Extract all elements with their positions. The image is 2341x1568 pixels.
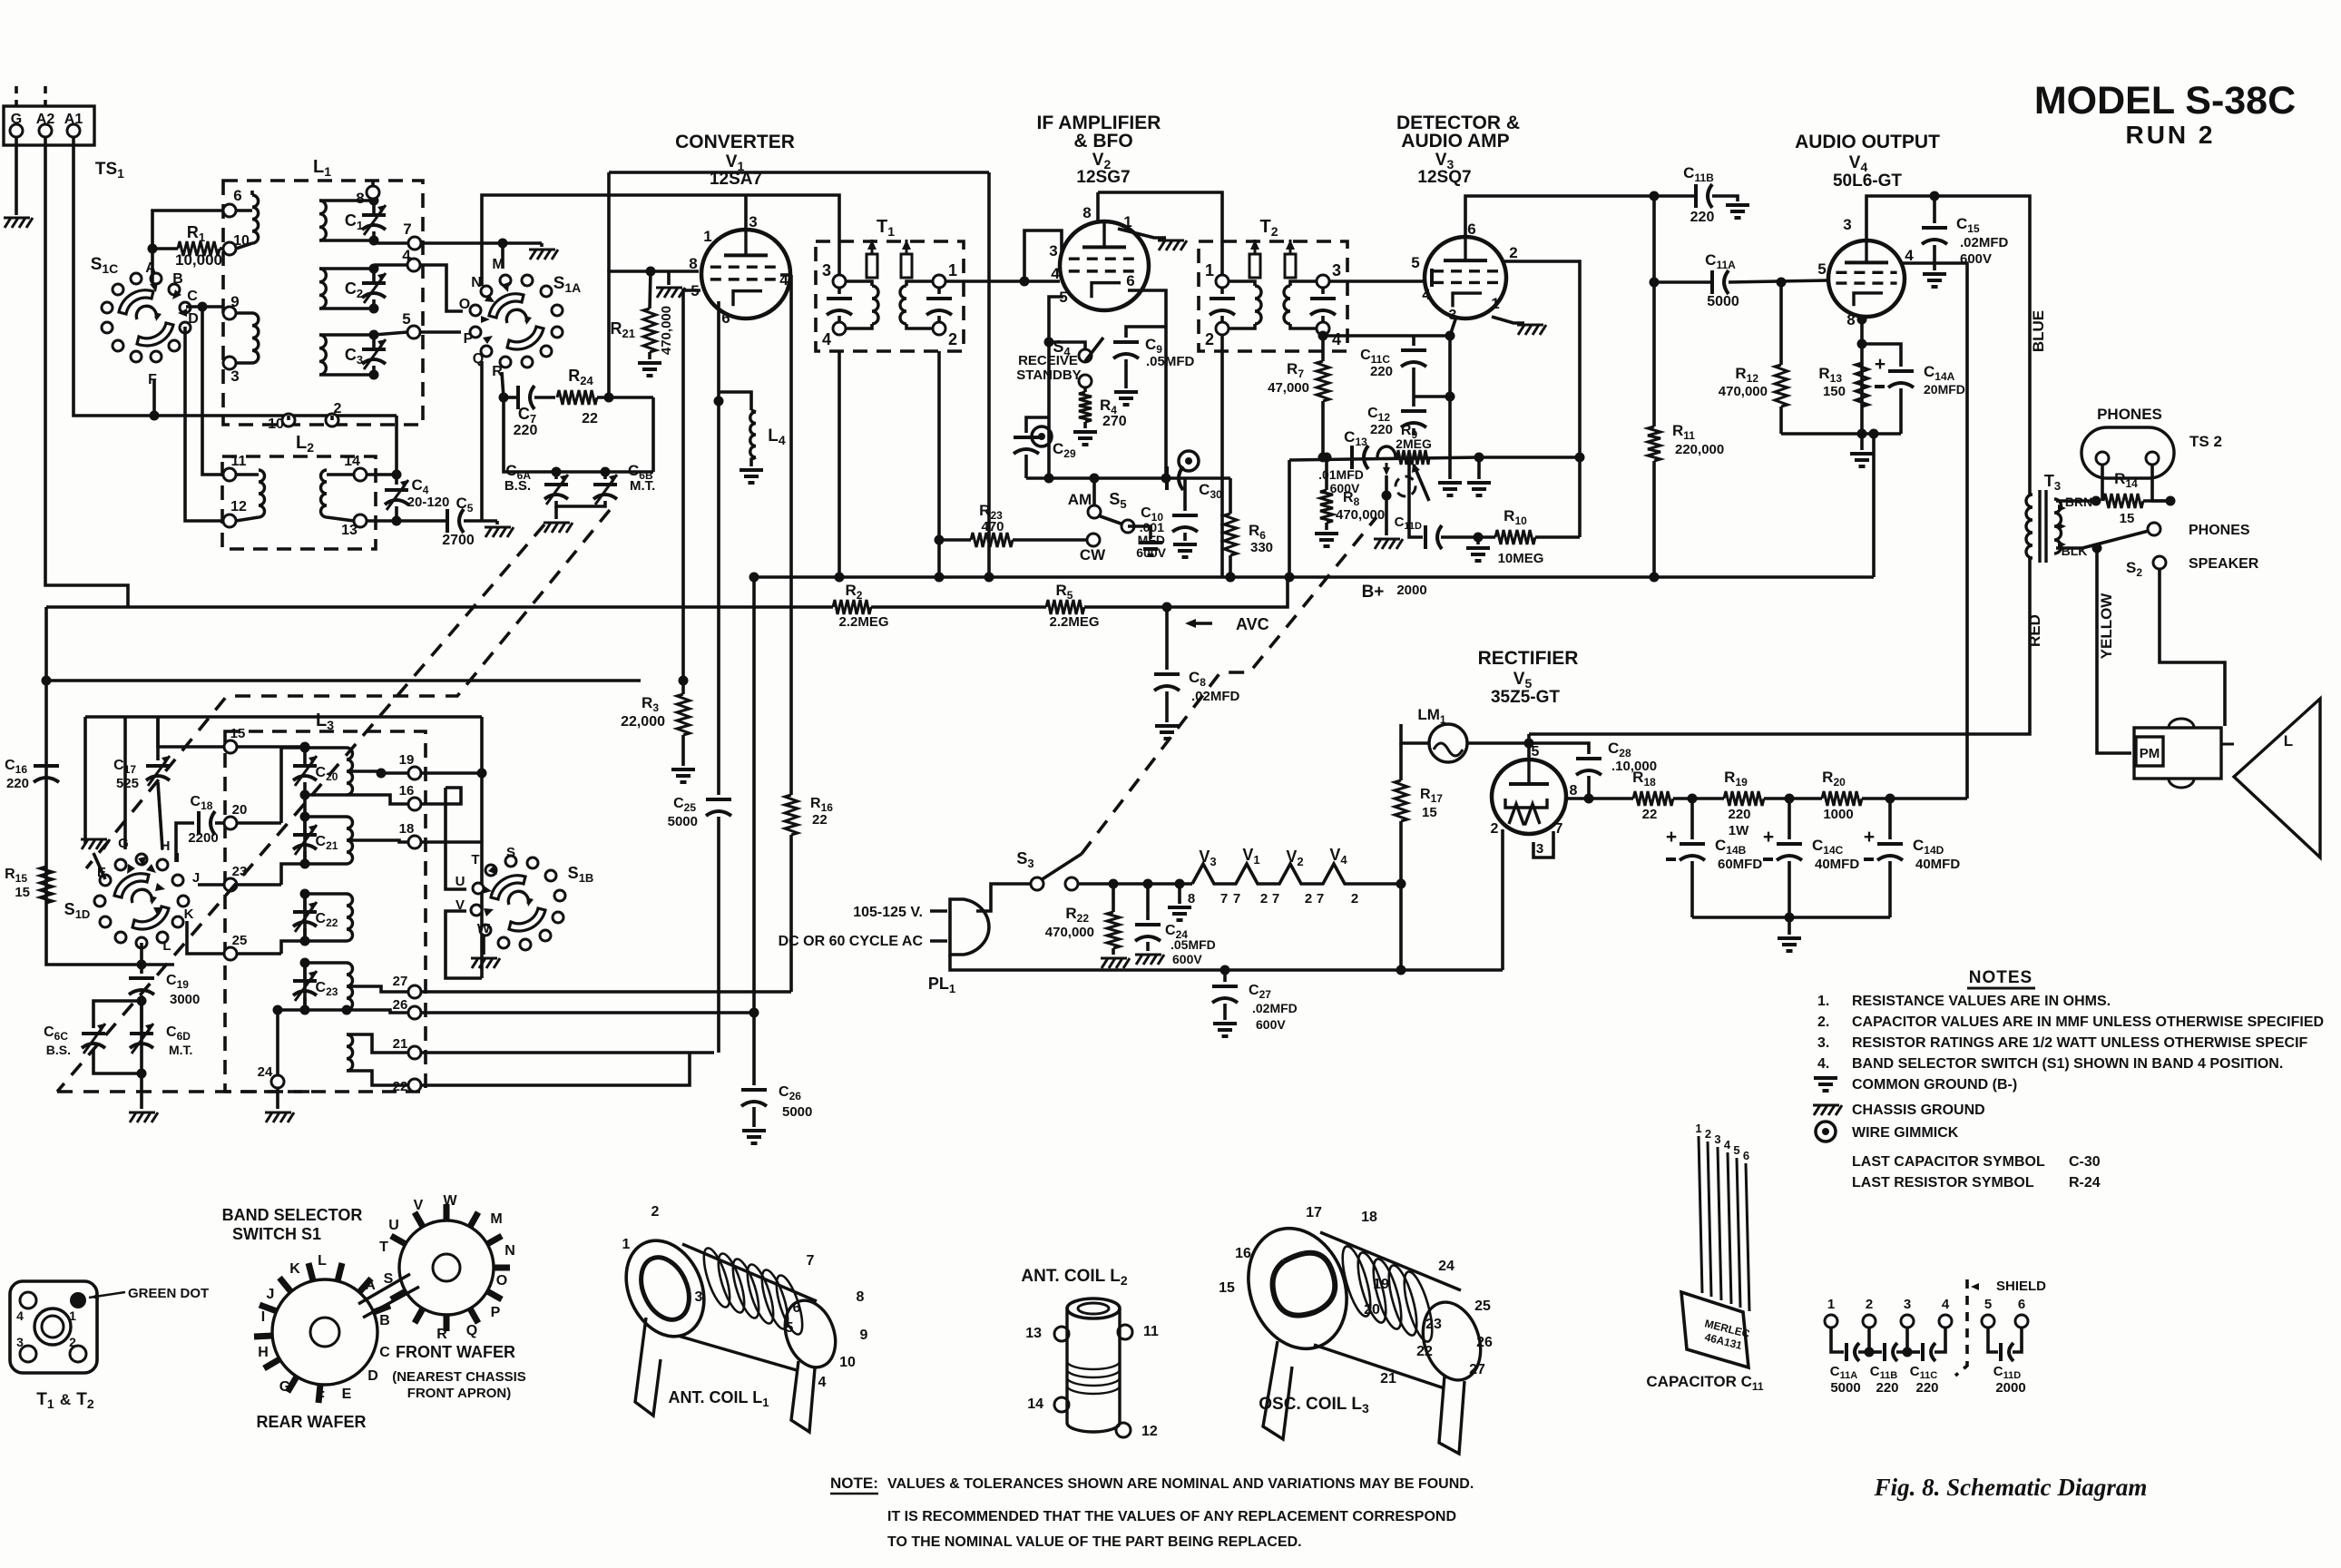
V4 cathode pin8 column (1860, 315, 1864, 434)
C30 gimmick drop (1386, 463, 1388, 470)
svg-text:FRONT WAFER: FRONT WAFER (396, 1343, 515, 1361)
svg-text:5: 5 (402, 310, 410, 328)
svg-text:K: K (289, 1261, 300, 1277)
svg-text:5: 5 (786, 1320, 794, 1336)
svg-text:40MFD: 40MFD (1815, 857, 1859, 872)
svg-text:330: 330 (1250, 540, 1273, 555)
svg-text:220: 220 (1876, 1380, 1898, 1396)
svg-text:25: 25 (1474, 1298, 1491, 1314)
wire A1 down to band switch row (73, 137, 397, 416)
wire heater return down (1399, 884, 1403, 970)
resistor R3 on pin5 column (677, 694, 690, 735)
svg-text:U: U (388, 1218, 399, 1233)
diode load wires with C11C C12 (1323, 334, 1450, 338)
L2 terminal 11 (223, 468, 236, 481)
svg-text:2: 2 (1491, 821, 1499, 837)
common ground below V3 pin3 node (1438, 481, 1462, 485)
svg-text:3: 3 (1904, 1297, 1911, 1312)
resistor R21 470000 (643, 309, 656, 352)
capacitor C11 schematic detail (1825, 1315, 1837, 1328)
chassis ground below 24 (276, 1088, 279, 1109)
rotary switch S1C (180, 322, 191, 333)
svg-text:13: 13 (341, 523, 358, 538)
plug to S3 wire (976, 884, 1031, 911)
L2 terminal 13 (354, 514, 367, 527)
svg-text:470,000: 470,000 (1045, 925, 1094, 940)
svg-text:2: 2 (1305, 891, 1312, 906)
IF transformer T2 (1199, 241, 1347, 351)
common ground below R4 (1073, 430, 1097, 434)
svg-text:RESISTANCE VALUES ARE IN OHMS.: RESISTANCE VALUES ARE IN OHMS. (1852, 994, 2111, 1009)
socket pictorial T1 and T2 (10, 1281, 97, 1373)
pilot lamp LM1 (1429, 724, 1467, 762)
svg-text:IT IS RECOMMENDED THAT THE VAL: IT IS RECOMMENDED THAT THE VALUES OF ANY… (887, 1509, 1456, 1524)
svg-text:S: S (506, 845, 515, 860)
svg-text:6: 6 (793, 1300, 801, 1316)
svg-text:105-125 V.: 105-125 V. (853, 905, 923, 920)
svg-text:N: N (471, 275, 482, 290)
wire vertical x1090 (987, 172, 991, 577)
outer box of band switch section (46, 679, 641, 682)
transformer T2 slugs (1249, 254, 1260, 278)
svg-text:RECEIVE: RECEIVE (1018, 353, 1078, 368)
transformer T2 secondary winding (1290, 281, 1317, 286)
wire S3 to heater string (1078, 882, 1192, 886)
long wires from L3 to converter (421, 771, 482, 775)
svg-text:TS: TS (95, 160, 117, 179)
svg-text:LAST RESISTOR SYMBOL: LAST RESISTOR SYMBOL (1852, 1175, 2034, 1191)
coil L1 dashed box (223, 181, 423, 425)
svg-text:470,000: 470,000 (1336, 507, 1385, 523)
trimmer C6C (93, 1001, 142, 1028)
svg-text:24: 24 (1438, 1259, 1455, 1274)
T2 pin2 wire down (1220, 335, 1224, 577)
svg-text:220: 220 (1915, 1380, 1938, 1396)
svg-text:PHONES: PHONES (2097, 406, 2162, 423)
phones jack wires (2101, 465, 2104, 501)
svg-text:U: U (455, 874, 465, 889)
common ground below C10 (1173, 543, 1197, 546)
svg-text:Fig. 8. Schematic Diagram: Fig. 8. Schematic Diagram (1874, 1474, 2148, 1501)
svg-text:SHIELD: SHIELD (1996, 1279, 2046, 1294)
chassis ground at V3 pin 1 (1518, 325, 1524, 335)
svg-text:600V: 600V (1136, 545, 1166, 560)
svg-text:SPEAKER: SPEAKER (2189, 556, 2259, 572)
svg-text:V: V (414, 1198, 424, 1213)
svg-text:7: 7 (1272, 891, 1279, 906)
tube V2 12SG7 (1060, 221, 1149, 310)
V2 pin5 wire down (1049, 297, 1063, 342)
svg-text:15: 15 (1422, 805, 1437, 820)
V4 plate wire (1866, 196, 2030, 495)
trimmer capacitor C23 (293, 979, 317, 983)
svg-text:15: 15 (2120, 511, 2135, 526)
resistor R23 (940, 538, 971, 542)
svg-text:21: 21 (393, 1036, 408, 1052)
wire G to ground (15, 137, 18, 215)
transformer T2 terminals (1216, 275, 1229, 288)
svg-text:22: 22 (812, 812, 828, 828)
svg-text:470,000: 470,000 (659, 306, 674, 355)
V2 plate wire up (1096, 192, 1100, 221)
svg-text:.02MFD: .02MFD (1252, 1001, 1298, 1015)
svg-text:1: 1 (1827, 1297, 1835, 1312)
svg-text:H: H (258, 1345, 269, 1360)
wire vertical from T1 secondary down (937, 351, 941, 577)
L1 terminal 8 (367, 186, 379, 199)
svg-text:16: 16 (1235, 1246, 1251, 1261)
svg-text:VALUES & TOLERANCES SHOWN ARE: VALUES & TOLERANCES SHOWN ARE NOMINAL AN… (887, 1476, 1474, 1492)
capacitor C11C section (1921, 1343, 1925, 1361)
electrolytic C14C 40MFD (1788, 799, 1791, 839)
oscillator coil L3 dashed box (225, 731, 426, 1092)
svg-text:DC OR 60 CYCLE AC: DC OR 60 CYCLE AC (779, 934, 924, 949)
svg-text:J: J (267, 1287, 275, 1302)
V3 pin3 wire down (1450, 317, 1456, 479)
L1 terminal 10 (223, 242, 236, 255)
L3 winding tap wires to right terminals (347, 771, 408, 773)
svg-text:5000: 5000 (1707, 294, 1739, 309)
L2 terminal 12 (223, 514, 236, 527)
svg-text:D: D (367, 1368, 378, 1384)
svg-text:470: 470 (981, 519, 1004, 534)
volume control R9 2MEG (1397, 450, 1429, 465)
resistor R8 (1322, 453, 1332, 463)
capacitor C5 (446, 509, 449, 533)
mechanical linkage dashed lines (57, 524, 544, 1092)
svg-text:GREEN DOT: GREEN DOT (128, 1286, 209, 1301)
svg-text:G: G (279, 1379, 290, 1395)
chassis ground below G (5, 218, 11, 228)
svg-text:+: + (1763, 827, 1774, 848)
chassis ground stub on grid line (667, 271, 671, 285)
transformer T1 primary cap (827, 297, 852, 300)
trimmer capacitor C20 (293, 764, 317, 768)
chassis ground at V2 pin 1 (1159, 240, 1165, 250)
svg-text:3: 3 (230, 367, 239, 385)
svg-text:25: 25 (232, 933, 248, 948)
T2 secondary to V3 (1329, 279, 1426, 283)
resistor R18 22 (1633, 791, 1673, 806)
trimmer capacitor C1 (362, 213, 386, 217)
svg-text:3: 3 (749, 213, 757, 230)
note common ground symbol (1814, 1076, 1837, 1080)
svg-text:PM: PM (2140, 746, 2160, 761)
ground at end of detector bus (1477, 457, 1481, 479)
svg-text:G: G (118, 836, 129, 851)
resistor R14 15 (2103, 494, 2143, 508)
chassis ground below C19 (140, 1093, 143, 1109)
L3 pictorial legs (1263, 1341, 1292, 1439)
wire top loop over V1 (609, 171, 989, 174)
svg-text:13: 13 (1025, 1326, 1042, 1341)
note chassis ground symbol (1814, 1105, 1820, 1115)
resistor R2 (833, 600, 871, 614)
L3 vertical connect wires (303, 747, 307, 748)
svg-text:8: 8 (1188, 891, 1195, 906)
svg-text:470,000: 470,000 (1719, 384, 1768, 399)
inner box right wire down from 19 (480, 717, 484, 978)
svg-text:G: G (11, 112, 22, 127)
svg-text:.05MFD: .05MFD (1146, 354, 1195, 369)
svg-text:11: 11 (231, 454, 247, 469)
svg-text:7: 7 (1317, 891, 1324, 906)
BLK lead (2056, 546, 2082, 550)
wire C7 node down to trimmers C6A C6B (504, 397, 653, 472)
trimmer C17 on H wire (156, 717, 160, 760)
svg-text:& BFO: & BFO (1073, 131, 1132, 152)
svg-text:4.: 4. (1817, 1056, 1829, 1072)
svg-text:CAPACITOR C11: CAPACITOR C11 (1646, 1373, 1764, 1393)
AVC bus with R2 R5 (46, 605, 833, 609)
antenna coil L2 pictorial (1067, 1298, 1120, 1318)
resistor R16 on pin4 column (789, 275, 793, 795)
svg-text:&: & (60, 1391, 71, 1408)
V5 plate riser and RED feed (1527, 734, 1531, 759)
svg-text:19: 19 (1373, 1277, 1389, 1292)
svg-text:O: O (459, 297, 470, 312)
transformer T1 secondary cap (926, 297, 952, 300)
resistor R24 (557, 390, 597, 405)
V2 pin3 bracket (1024, 230, 1062, 281)
svg-text:11: 11 (1143, 1324, 1159, 1339)
svg-text:P: P (464, 331, 474, 347)
svg-text:BLUE: BLUE (2030, 310, 2047, 352)
V3 pin2 wire to R10 node (1504, 261, 1580, 537)
S1C contact arrows (150, 282, 158, 292)
resistor R4 (1083, 387, 1087, 392)
capacitor C28 (1529, 743, 1589, 754)
wire S1C-A to R1 node (152, 211, 223, 283)
tube V3 12SQ7 (1425, 237, 1506, 318)
svg-text:4: 4 (1332, 330, 1341, 348)
heater string V3 V1 V2 V4 (1192, 864, 1366, 884)
svg-text:20: 20 (1364, 1302, 1380, 1318)
wire B+ branch down to C26 (752, 577, 756, 1013)
V5 pin 2 wire down (1501, 829, 1504, 970)
wire J to terminal 23 (198, 883, 224, 887)
svg-text:B.S.: B.S. (46, 1043, 71, 1057)
resistor R5 (1046, 600, 1084, 614)
svg-text:STANDBY: STANDBY (1016, 367, 1081, 383)
svg-text:35Z5-GT: 35Z5-GT (1491, 688, 1560, 707)
coil L4 branch to ground (719, 392, 751, 410)
V2 plate wire to T2 (1098, 192, 1222, 275)
L3 terminal 25 (224, 947, 237, 960)
svg-text:5000: 5000 (1830, 1380, 1860, 1396)
svg-text:22: 22 (1416, 1344, 1433, 1359)
chassis ground at S1D E contact (93, 853, 105, 879)
svg-text:2.2MEG: 2.2MEG (838, 614, 888, 630)
transformer T1 terminals (833, 275, 846, 288)
svg-text:6: 6 (1467, 220, 1475, 238)
BRN lead and R14 (2056, 499, 2096, 503)
wire down to L2 terminal 11 (202, 307, 224, 475)
wire B+ bus up to cathode bus (1872, 434, 1876, 577)
shield dashed line (1955, 1279, 1967, 1376)
common ground below C9 (1114, 390, 1138, 394)
detector bus (1288, 460, 1291, 579)
capacitor C7 (516, 386, 520, 409)
capacitor C12 (1401, 409, 1426, 413)
L3 winding at 20 (347, 748, 353, 795)
svg-text:BAND SELECTOR SWITCH (S1) SHOW: BAND SELECTOR SWITCH (S1) SHOWN IN BAND … (1852, 1056, 2283, 1072)
filter ground bus (1692, 916, 1890, 919)
resistor R6 (1229, 478, 1232, 514)
capacitor C24 (1146, 884, 1150, 920)
svg-text:C: C (379, 1345, 390, 1360)
svg-text:23: 23 (1425, 1317, 1442, 1332)
svg-text:15: 15 (1219, 1280, 1235, 1296)
V2 pin1 to chassis ground (1118, 229, 1166, 238)
wire C10 to R6 top (1185, 476, 1230, 480)
chassis ground below R22 (1102, 958, 1108, 968)
svg-text:TS 2: TS 2 (2189, 433, 2222, 450)
L1 terminal 9 (223, 307, 236, 319)
svg-text:D: D (188, 311, 199, 327)
L2 left winding (259, 470, 265, 517)
L3 right side terminals (408, 767, 421, 779)
capacitor C18 on I wire (176, 823, 194, 862)
svg-text:+: + (1666, 827, 1677, 848)
capacitor C26 5000 (752, 1013, 756, 1085)
wire R24 node up to V1 pin 8 line (609, 271, 699, 397)
S1B wires (446, 788, 466, 889)
svg-text:M.T.: M.T. (169, 1043, 192, 1057)
svg-text:Q: Q (466, 1323, 477, 1338)
transformer T2 primary cap (1210, 297, 1235, 300)
V1 pin4 wire to column (780, 273, 791, 277)
svg-text:BLK: BLK (2062, 544, 2088, 558)
svg-text:2MEG: 2MEG (1396, 436, 1432, 451)
ground for C5 (495, 521, 499, 524)
L1 terminal 6 (223, 204, 236, 217)
svg-text:2.2MEG: 2.2MEG (1049, 614, 1099, 630)
common ground below R8 (1315, 532, 1338, 535)
L1 terminal 5 wire (407, 326, 420, 338)
svg-text:27: 27 (393, 974, 408, 989)
svg-text:S: S (384, 1271, 394, 1287)
svg-text:20: 20 (232, 802, 248, 818)
L2 pictorial lugs (1054, 1327, 1069, 1341)
V5 pin8 output bus (1564, 797, 1633, 800)
wire S1C-F to A1 row (152, 379, 156, 416)
svg-text:1W: 1W (1729, 823, 1749, 838)
electrolytic C14D 40MFD (1888, 799, 1892, 839)
RED lead down from T3 (1529, 558, 2030, 734)
rotary switch S1D (172, 916, 183, 927)
svg-text:220,000: 220,000 (1675, 442, 1724, 457)
svg-text:SWITCH S1: SWITCH S1 (232, 1225, 321, 1243)
svg-text:8: 8 (689, 255, 697, 272)
svg-text:2: 2 (948, 330, 957, 348)
svg-text:4: 4 (1942, 1297, 1950, 1312)
svg-text:5: 5 (1733, 1143, 1739, 1157)
svg-text:18: 18 (1361, 1210, 1377, 1225)
capacitor C11A (1710, 270, 1714, 294)
svg-text:2000: 2000 (1396, 583, 1426, 598)
L3 terminal 20 (224, 817, 237, 829)
svg-text:9: 9 (230, 293, 239, 310)
svg-text:3: 3 (1536, 841, 1543, 857)
svg-text:6: 6 (1743, 1149, 1749, 1162)
L2 right winding (321, 470, 328, 517)
svg-text:2.: 2. (1817, 1014, 1829, 1030)
L3 small bottom winding (347, 1034, 353, 1071)
svg-text:+: + (1875, 354, 1886, 375)
svg-text:6: 6 (1126, 272, 1134, 289)
capacitor C25 on pin6 column (717, 401, 720, 795)
common ground for C11B (1726, 203, 1749, 207)
rotary switch S1B (553, 912, 563, 923)
wire vertical from T1 primary to B+ (837, 351, 841, 577)
svg-text:17: 17 (1306, 1205, 1322, 1220)
B+ bus (754, 575, 1874, 579)
svg-text:5: 5 (1411, 254, 1419, 271)
svg-text:BAND SELECTOR: BAND SELECTOR (222, 1206, 363, 1224)
svg-text:I: I (261, 1309, 265, 1325)
S4 receive-standby switch (1049, 342, 1085, 348)
svg-text:1: 1 (1205, 261, 1214, 279)
resistor R7 47000 (1317, 361, 1329, 401)
svg-text:F: F (316, 1389, 325, 1405)
svg-text:10,000: 10,000 (175, 251, 222, 269)
svg-text:150: 150 (1823, 384, 1846, 399)
svg-text:7: 7 (1220, 891, 1228, 906)
L3 terminal 23 (224, 878, 237, 891)
cathode bottom bus (1781, 432, 1901, 436)
antenna coil L1 pictorial (612, 1228, 719, 1348)
antenna dashed leads (15, 86, 18, 106)
svg-text:FRONT APRON): FRONT APRON) (407, 1386, 511, 1401)
trimmer capacitor C2 (362, 281, 386, 285)
svg-text:CW: CW (1080, 546, 1106, 563)
svg-text:26: 26 (393, 997, 408, 1013)
electrolytic C14A (1862, 344, 1901, 367)
svg-text:CAPACITOR VALUES ARE IN MMF UN: CAPACITOR VALUES ARE IN MMF UNLESS OTHER… (1852, 1014, 2324, 1030)
L1 right windings with trimmers C1 C2 C3 (319, 201, 326, 240)
svg-text:5000: 5000 (782, 1104, 812, 1120)
svg-text:21: 21 (1380, 1371, 1396, 1387)
common ground below C15 (1923, 272, 1946, 276)
svg-text:19: 19 (399, 752, 415, 768)
L1 terminal 3 (223, 357, 236, 369)
svg-text:3: 3 (16, 1335, 24, 1349)
svg-text:1: 1 (69, 1308, 76, 1323)
svg-text:4: 4 (822, 330, 831, 348)
svg-text:T: T (471, 852, 479, 867)
V2 pin6 wire to C9 (1128, 290, 1166, 478)
wire from A1 row down to C4 (395, 416, 398, 475)
svg-text:2: 2 (651, 1204, 660, 1220)
svg-text:T: T (379, 1240, 388, 1255)
svg-text:220: 220 (1370, 422, 1393, 437)
coil L2 dashed box (222, 456, 376, 549)
wire R contact to C7 (502, 372, 504, 397)
svg-text:3: 3 (1049, 242, 1057, 260)
svg-text:220: 220 (514, 423, 538, 438)
svg-text:47,000: 47,000 (1268, 380, 1309, 396)
capacitor C10 (1172, 514, 1198, 517)
capacitor C11A section (1845, 1343, 1848, 1361)
common ground below C26 (742, 1129, 766, 1132)
svg-text:1: 1 (622, 1237, 631, 1252)
wire gimmick C29 (1032, 426, 1052, 446)
common ground for filters (1778, 936, 1801, 940)
trimmer C6D (130, 1032, 153, 1035)
svg-text:MODEL S-38C: MODEL S-38C (2034, 79, 2296, 122)
svg-text:5: 5 (1984, 1297, 1992, 1312)
